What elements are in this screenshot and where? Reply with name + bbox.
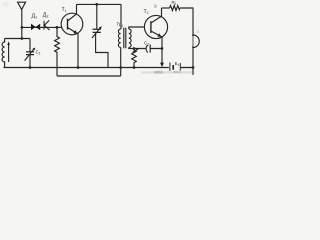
- wire T2 collector top: [162, 7, 170, 9]
- transformer Tr1 primary lead: [120, 4, 122, 29]
- node antenna-base junction: [21, 26, 24, 29]
- T1 collector: [68, 4, 77, 21]
- resistor R1: [55, 27, 60, 76]
- C1 arrow: [25, 49, 34, 60]
- T2 emitter: [151, 31, 162, 63]
- antenna W1: [18, 2, 26, 9]
- node top rail junction: [95, 3, 98, 6]
- wire tank top: [5, 38, 30, 40]
- battery B: [169, 63, 171, 71]
- scan smudges: [2, 2, 199, 74]
- T2 emitter arrow: [157, 33, 161, 36]
- capacitor C1 (variable): [29, 39, 31, 68]
- wire earphone to rail: [192, 48, 194, 76]
- transistor T2 circle: [144, 15, 167, 38]
- resistor R2 (variable): [132, 49, 137, 68]
- node R2 tap: [133, 47, 136, 50]
- C2 arrow: [92, 28, 100, 38]
- wire secondary top to T2 base: [129, 27, 145, 29]
- node rail-primary crossing: [119, 66, 122, 69]
- wire rail right of battery: [181, 67, 193, 69]
- T1 emitter: [68, 28, 79, 68]
- T1 emitter arrow: [73, 30, 77, 33]
- node T1 emitter ground: [77, 66, 80, 69]
- resistor R3: [170, 6, 180, 11]
- earphone Tf: [193, 35, 199, 48]
- node C3 to emitter: [161, 47, 164, 50]
- L1 tuning arrow: [8, 44, 10, 62]
- wire detector to T1 base: [22, 26, 62, 28]
- node tank top junction: [21, 37, 24, 40]
- diode D1: [31, 24, 40, 31]
- capacitor C3: [146, 45, 148, 52]
- node earphone-rail: [192, 66, 195, 69]
- inductor L1: [2, 39, 4, 68]
- T2 collector: [151, 8, 162, 23]
- wire top right corner: [180, 8, 193, 35]
- node R2 ground: [133, 66, 136, 69]
- node C1 ground: [29, 66, 32, 69]
- wire antenna down-lead: [21, 10, 23, 39]
- wire lower return rail: [57, 75, 121, 77]
- T1 base bar: [67, 19, 69, 30]
- wire secondary bottom: [129, 47, 162, 48]
- transformer Tr1 secondary winding: [129, 29, 131, 47]
- diode D2: [44, 20, 50, 30]
- T2 emitter down arrow: [160, 63, 164, 68]
- T2 base bar: [150, 21, 152, 33]
- transformer Tr1 primary winding: [118, 29, 120, 47]
- transformer Tr1 core: [124, 28, 126, 49]
- wire main bottom rail: [4, 67, 169, 69]
- wire primary bottom: [120, 47, 122, 76]
- R2 arrow: [133, 49, 138, 52]
- capacitor C2 (trimmer): [96, 4, 108, 67]
- wire top rail T1 collector: [77, 3, 122, 5]
- transistor T1 circle: [61, 13, 83, 35]
- node T1 base junction: [56, 26, 59, 29]
